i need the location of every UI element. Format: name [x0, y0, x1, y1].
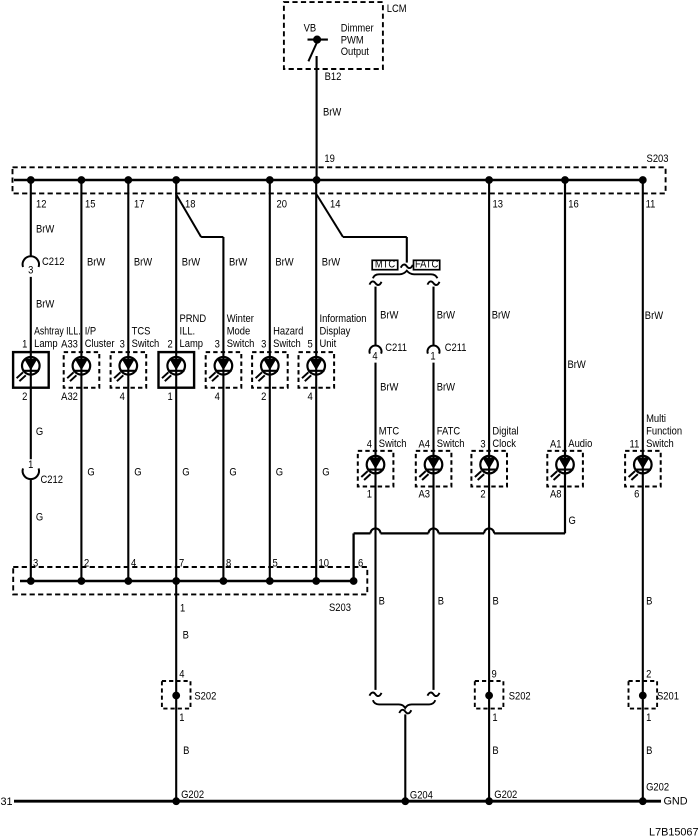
- svg-text:A8: A8: [550, 489, 562, 501]
- svg-text:6: 6: [634, 489, 639, 501]
- svg-text:1: 1: [180, 603, 185, 615]
- svg-text:4: 4: [372, 351, 377, 363]
- svg-text:6: 6: [358, 558, 363, 570]
- svg-text:TCS: TCS: [132, 326, 151, 338]
- svg-text:G: G: [36, 426, 43, 438]
- svg-text:S202: S202: [509, 691, 531, 703]
- svg-text:Switch: Switch: [379, 438, 407, 450]
- svg-text:1: 1: [22, 339, 27, 351]
- svg-text:3: 3: [261, 339, 266, 351]
- svg-text:17: 17: [134, 199, 145, 211]
- svg-text:FATC: FATC: [415, 259, 439, 271]
- svg-text:B: B: [183, 745, 189, 757]
- svg-text:Switch: Switch: [646, 438, 674, 450]
- svg-text:1: 1: [492, 712, 497, 724]
- svg-text:B: B: [646, 596, 652, 608]
- svg-text:2: 2: [22, 391, 27, 403]
- svg-text:3: 3: [28, 265, 33, 277]
- svg-text:18: 18: [185, 199, 196, 211]
- svg-text:Switch: Switch: [437, 438, 465, 450]
- svg-text:S202: S202: [194, 691, 216, 703]
- svg-text:MTC: MTC: [375, 259, 396, 271]
- svg-text:4: 4: [179, 669, 184, 681]
- svg-text:GND: GND: [664, 795, 688, 807]
- svg-text:Cluster: Cluster: [85, 338, 115, 350]
- svg-text:Winter: Winter: [227, 313, 255, 325]
- svg-text:BrW: BrW: [229, 257, 247, 269]
- svg-text:PWM: PWM: [341, 35, 364, 47]
- svg-text:13: 13: [493, 199, 504, 211]
- svg-text:S203: S203: [647, 153, 669, 165]
- svg-text:5: 5: [273, 558, 278, 570]
- svg-text:Lamp: Lamp: [180, 338, 204, 350]
- svg-text:G: G: [134, 467, 141, 479]
- svg-text:G202: G202: [494, 789, 517, 801]
- svg-text:VB: VB: [304, 23, 317, 35]
- svg-text:16: 16: [568, 199, 579, 211]
- svg-text:B: B: [493, 596, 499, 608]
- svg-text:Lamp: Lamp: [34, 338, 58, 350]
- svg-text:2: 2: [84, 558, 89, 570]
- svg-text:31: 31: [1, 796, 13, 808]
- svg-text:19: 19: [324, 153, 335, 165]
- svg-text:BrW: BrW: [437, 310, 455, 322]
- svg-text:G: G: [182, 467, 189, 479]
- svg-text:C212: C212: [42, 256, 65, 268]
- svg-text:G: G: [322, 467, 329, 479]
- svg-text:BrW: BrW: [323, 107, 341, 119]
- svg-text:2: 2: [261, 391, 266, 403]
- svg-text:8: 8: [226, 558, 231, 570]
- svg-text:C212: C212: [41, 474, 64, 486]
- svg-text:S201: S201: [657, 691, 679, 703]
- svg-text:1: 1: [167, 391, 172, 403]
- svg-text:Switch: Switch: [132, 338, 160, 350]
- svg-text:C211: C211: [385, 342, 407, 354]
- svg-text:Ashtray ILL.: Ashtray ILL.: [34, 325, 81, 337]
- svg-text:3: 3: [120, 339, 125, 351]
- svg-text:Output: Output: [341, 47, 369, 59]
- svg-text:Hazard: Hazard: [273, 326, 304, 338]
- svg-text:Switch: Switch: [227, 338, 255, 350]
- svg-text:BrW: BrW: [645, 310, 663, 322]
- svg-text:A3: A3: [419, 489, 431, 501]
- svg-text:BrW: BrW: [492, 310, 510, 322]
- svg-text:11: 11: [630, 439, 640, 451]
- svg-text:Information: Information: [320, 313, 367, 325]
- svg-text:Function: Function: [646, 426, 682, 438]
- svg-text:Clock: Clock: [492, 438, 516, 450]
- svg-text:Unit: Unit: [320, 338, 337, 350]
- svg-text:4: 4: [215, 391, 220, 403]
- svg-text:14: 14: [330, 199, 341, 211]
- svg-text:1: 1: [367, 489, 372, 501]
- svg-text:7: 7: [179, 558, 184, 570]
- svg-text:G202: G202: [646, 782, 669, 794]
- svg-text:B: B: [438, 596, 444, 608]
- svg-text:Digital: Digital: [492, 426, 518, 438]
- svg-text:2: 2: [167, 339, 172, 351]
- svg-text:Switch: Switch: [273, 338, 301, 350]
- svg-text:12: 12: [36, 199, 47, 211]
- svg-text:BrW: BrW: [36, 224, 54, 236]
- svg-text:3: 3: [215, 339, 220, 351]
- svg-text:B: B: [492, 745, 498, 757]
- svg-text:B: B: [379, 596, 385, 608]
- svg-text:1: 1: [179, 712, 184, 724]
- svg-text:BrW: BrW: [87, 257, 105, 269]
- svg-text:4: 4: [131, 558, 136, 570]
- svg-text:ILL.: ILL.: [180, 326, 196, 338]
- svg-text:MTC: MTC: [379, 426, 400, 438]
- svg-text:L7B15067: L7B15067: [649, 826, 698, 838]
- svg-text:BrW: BrW: [322, 257, 340, 269]
- svg-text:10: 10: [319, 558, 330, 570]
- svg-text:PRND: PRND: [180, 313, 207, 325]
- svg-text:BrW: BrW: [134, 257, 152, 269]
- svg-text:9: 9: [492, 669, 497, 681]
- svg-text:3: 3: [480, 439, 485, 451]
- svg-text:BrW: BrW: [36, 299, 54, 311]
- svg-text:11: 11: [646, 199, 656, 211]
- svg-text:B: B: [183, 630, 189, 642]
- svg-text:2: 2: [646, 669, 651, 681]
- svg-text:1: 1: [28, 460, 33, 472]
- svg-text:Display: Display: [320, 326, 352, 338]
- svg-text:5: 5: [307, 339, 312, 351]
- svg-text:C211: C211: [445, 342, 467, 354]
- svg-text:FATC: FATC: [437, 426, 461, 438]
- svg-text:A33: A33: [61, 339, 78, 351]
- svg-text:G: G: [87, 467, 94, 479]
- svg-text:I/P: I/P: [85, 326, 97, 338]
- svg-text:B12: B12: [325, 71, 342, 83]
- svg-text:G202: G202: [181, 789, 204, 801]
- svg-text:4: 4: [367, 439, 372, 451]
- svg-text:A1: A1: [550, 439, 562, 451]
- svg-text:4: 4: [307, 391, 312, 403]
- svg-text:BrW: BrW: [275, 257, 293, 269]
- svg-text:Multi: Multi: [646, 413, 666, 425]
- svg-text:1: 1: [646, 712, 651, 724]
- svg-text:G: G: [36, 512, 43, 524]
- svg-text:3: 3: [33, 558, 38, 570]
- svg-text:BrW: BrW: [568, 359, 586, 371]
- svg-text:A32: A32: [61, 391, 78, 403]
- svg-text:BrW: BrW: [380, 310, 398, 322]
- svg-text:Audio: Audio: [568, 438, 592, 450]
- svg-text:Dimmer: Dimmer: [341, 23, 374, 35]
- svg-text:LCM: LCM: [387, 3, 407, 15]
- svg-text:20: 20: [277, 199, 288, 211]
- svg-text:Mode: Mode: [227, 326, 251, 338]
- svg-text:4: 4: [120, 391, 125, 403]
- svg-text:S203: S203: [329, 602, 351, 614]
- svg-text:BrW: BrW: [182, 257, 200, 269]
- svg-text:15: 15: [85, 199, 96, 211]
- svg-text:BrW: BrW: [437, 382, 455, 394]
- svg-text:G: G: [229, 467, 236, 479]
- svg-text:G: G: [569, 515, 576, 527]
- svg-text:A4: A4: [419, 439, 431, 451]
- svg-text:G: G: [276, 467, 283, 479]
- svg-text:2: 2: [480, 489, 485, 501]
- svg-text:1: 1: [430, 351, 435, 363]
- svg-text:B: B: [646, 745, 652, 757]
- svg-text:BrW: BrW: [380, 382, 398, 394]
